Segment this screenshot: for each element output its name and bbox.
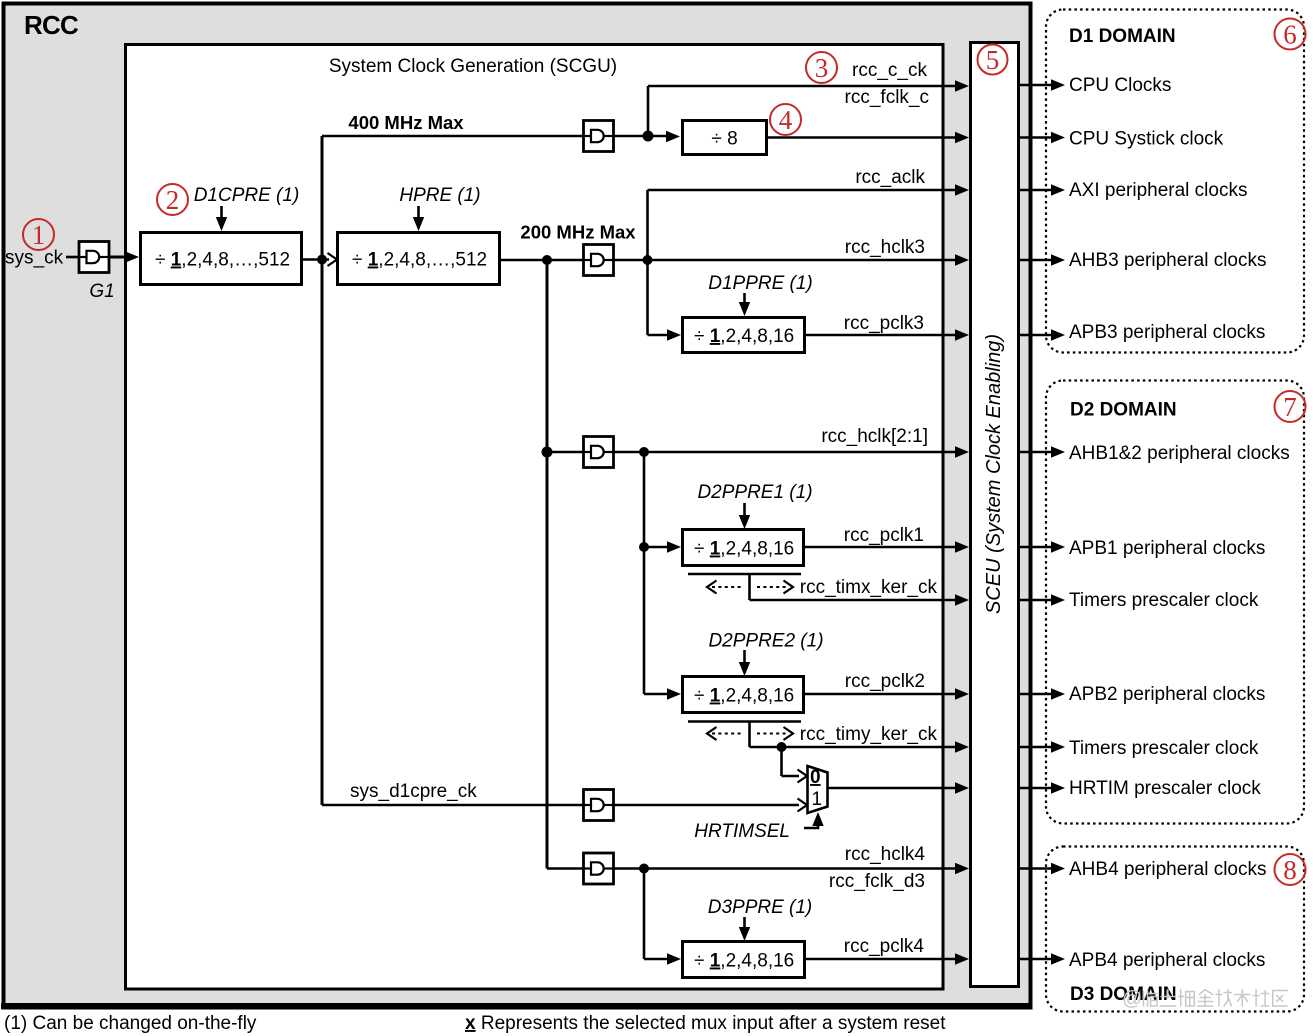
wire rcc_c_ck to SCEU (648, 80, 969, 91)
net rcc_pclk2 (845, 671, 925, 692)
net rcc_hclk[2:1] (821, 426, 928, 447)
callout 8 (1275, 854, 1306, 885)
clock gate on hclk21 (584, 437, 614, 468)
wire into D1PPRE (648, 329, 682, 340)
node on hclk3 at riser (643, 255, 653, 265)
wire drop to timy (748, 722, 751, 748)
wire rcc_pclk3 to SCEU (804, 329, 969, 340)
wire G1 to D1CPRE (109, 251, 139, 262)
SCEU output arrows (1019, 79, 1065, 964)
svg-text:rcc_hclk3: rcc_hclk3 (845, 237, 925, 258)
SCEU block U-SCEU (971, 43, 1019, 987)
D2PPRE2 control label (708, 631, 823, 652)
svg-text:Timers prescaler clock: Timers prescaler clock (1069, 590, 1259, 611)
wire drop to timx (748, 574, 751, 600)
mux HRTIMSEL (808, 766, 828, 813)
svg-text:rcc_pclk1: rcc_pclk1 (844, 525, 924, 546)
svg-text:CPU Clocks: CPU Clocks (1069, 75, 1171, 96)
divider HPRE (338, 233, 500, 285)
D1 domain box (1046, 10, 1304, 353)
clock gate G1 (79, 242, 109, 273)
D1CPRE control label (194, 185, 300, 206)
divider D2PPRE1 (683, 530, 804, 566)
net rcc_c_ck (852, 60, 927, 81)
node junction on 400MHz line (643, 131, 654, 142)
callout 5 (978, 45, 1008, 76)
svg-text:HRTIM prescaler clock: HRTIM prescaler clock (1069, 778, 1261, 799)
svg-text:sys_d1cpre_ck: sys_d1cpre_ck (350, 781, 477, 802)
wire HPRE output rcc_hclk3 (499, 254, 969, 265)
svg-text:rcc_fclk_c: rcc_fclk_c (845, 87, 929, 108)
svg-text:SCEU (System Clock Enabling): SCEU (System Clock Enabling) (983, 334, 1005, 614)
D2 domain items (1069, 443, 1290, 799)
wire sys_d1cpre_ck (322, 799, 807, 812)
net rcc_hclk3 (845, 237, 925, 258)
callout 1 (23, 219, 54, 250)
clock gate on hclk4 (584, 853, 614, 884)
wire arrow into div8 (666, 131, 680, 142)
svg-text:RCC: RCC (24, 10, 79, 40)
wire 400MHz line (322, 135, 668, 138)
net rcc_fclk_c (845, 87, 929, 108)
wire mux output to SCEU (828, 782, 970, 793)
D1PPRE control label (708, 273, 813, 294)
svg-text:÷ 1,2,4,8,16: ÷ 1,2,4,8,16 (694, 539, 794, 560)
svg-text:APB4 peripheral clocks: APB4 peripheral clocks (1069, 950, 1265, 971)
timer mul dashed arrows 2 (707, 727, 793, 740)
timer mul line 1 (688, 573, 801, 576)
D3 domain title (1070, 984, 1177, 1005)
svg-text:rcc_timy_ker_ck: rcc_timy_ker_ck (800, 724, 938, 745)
svg-text:D1 DOMAIN: D1 DOMAIN (1069, 26, 1176, 47)
net sys_d1cpre_ck (350, 781, 477, 802)
svg-text:APB3 peripheral clocks: APB3 peripheral clocks (1069, 322, 1265, 343)
wire D1CPRE to HPRE with node (301, 253, 337, 266)
wire riser to rcc_c_ck (647, 86, 650, 136)
divider D1CPRE (141, 233, 302, 285)
svg-text:D1PPRE (1): D1PPRE (1) (708, 273, 813, 294)
svg-text:÷ 1,2,4,8,16: ÷ 1,2,4,8,16 (694, 326, 794, 347)
svg-text:rcc_pclk3: rcc_pclk3 (844, 313, 924, 334)
D2PPRE2 control arrow (739, 650, 750, 676)
svg-text:rcc_c_ck: rcc_c_ck (852, 60, 927, 81)
divider D1PPRE (683, 318, 805, 353)
wire into D2PPRE2 (644, 688, 681, 699)
svg-text:÷ 1,2,4,8,…,512: ÷ 1,2,4,8,…,512 (155, 250, 290, 271)
svg-text:AHB4 peripheral clocks: AHB4 peripheral clocks (1069, 859, 1266, 880)
divider D3PPRE (683, 942, 805, 978)
node on hclk3 at trunk2 (542, 255, 552, 265)
net rcc_aclk (855, 167, 925, 188)
svg-text:AHB1&2 peripheral clocks: AHB1&2 peripheral clocks (1069, 443, 1290, 464)
node timy to mux (777, 742, 787, 752)
node hclk4 riser (639, 864, 649, 874)
wire rcc_pclk1 (803, 541, 969, 552)
svg-text:x Represents the selected mux: x Represents the selected mux input afte… (465, 1013, 946, 1034)
svg-text:400 MHz Max: 400 MHz Max (348, 112, 464, 133)
wire div8 to SCEU (767, 132, 969, 143)
svg-text:Timers prescaler clock: Timers prescaler clock (1069, 738, 1259, 759)
wire riser D2 (643, 452, 646, 694)
svg-text:7: 7 (1283, 392, 1297, 422)
wire rcc_timy_ker_ck (750, 741, 970, 752)
D2PPRE1 control label (697, 482, 812, 503)
D3PPRE control arrow (739, 917, 750, 941)
RCC label (24, 10, 79, 40)
wire rcc_pclk2 (803, 688, 969, 699)
wire rcc_aclk (648, 184, 970, 195)
svg-text:6: 6 (1283, 20, 1297, 50)
SCEU rotated label (983, 334, 1005, 614)
wire riser D3 (643, 869, 646, 960)
svg-text:1: 1 (32, 220, 46, 250)
svg-text:2: 2 (166, 185, 180, 215)
HPRE control label (399, 185, 480, 206)
footnote 1 (4, 1013, 257, 1034)
net rcc_pclk3 (844, 313, 924, 334)
svg-text:D1CPRE (1): D1CPRE (1) (194, 185, 300, 206)
D2 domain box (1046, 381, 1304, 824)
svg-text:1: 1 (812, 789, 823, 810)
wire rcc_hclk[2:1] (547, 446, 969, 457)
wire rcc_pclk4 (804, 953, 969, 964)
node D2PPRE1 input (639, 542, 649, 552)
wire sys_ck to G1 (66, 256, 79, 259)
svg-text:AXI peripheral clocks: AXI peripheral clocks (1069, 180, 1247, 201)
svg-text:÷ 1,2,4,8,16: ÷ 1,2,4,8,16 (694, 686, 794, 707)
svg-text:sys_ck: sys_ck (5, 248, 64, 269)
watermark (1122, 988, 1287, 1010)
wire riser aclk-pclk3 (646, 190, 649, 335)
divider D2PPRE2 (683, 677, 804, 713)
svg-text:D3PPRE (1): D3PPRE (1) (708, 897, 813, 918)
svg-text:APB1 peripheral clocks: APB1 peripheral clocks (1069, 538, 1265, 559)
svg-text:rcc_pclk2: rcc_pclk2 (845, 671, 925, 692)
svg-text:4: 4 (779, 105, 793, 135)
node trunk2 hclk21 (542, 447, 553, 458)
svg-text:CPU Systick clock: CPU Systick clock (1069, 129, 1224, 150)
svg-text:D2PPRE2 (1): D2PPRE2 (1) (708, 631, 823, 652)
footnote mux (465, 1013, 946, 1034)
svg-text:HPRE (1): HPRE (1) (399, 185, 480, 206)
svg-text:AHB3 peripheral clocks: AHB3 peripheral clocks (1069, 250, 1266, 271)
net rcc_pclk1 (844, 525, 924, 546)
wire into D3PPRE (644, 953, 681, 964)
D1 domain title (1069, 26, 1176, 47)
svg-text:APB2 peripheral clocks: APB2 peripheral clocks (1069, 684, 1265, 705)
wire rcc_timx_ker_ck (750, 594, 970, 605)
SCGU block outline (126, 45, 944, 990)
net rcc_timy_ker_ck (800, 724, 938, 745)
svg-text:rcc_timx_ker_ck: rcc_timx_ker_ck (800, 577, 938, 598)
svg-text:rcc_aclk: rcc_aclk (855, 167, 925, 188)
clock gate on sys_d1cpre_ck (584, 790, 614, 821)
callout 3 (806, 52, 837, 83)
svg-text:D2 DOMAIN: D2 DOMAIN (1070, 400, 1177, 421)
timer mul dashed arrows 1 (707, 581, 793, 594)
svg-text:D2PPRE1 (1): D2PPRE1 (1) (697, 482, 812, 503)
svg-text:÷ 1,2,4,8,16: ÷ 1,2,4,8,16 (694, 951, 794, 972)
RCC block outline (1, 4, 1032, 1008)
wire into D2PPRE1 (644, 541, 681, 552)
svg-text:@: @ (1122, 988, 1142, 1010)
divider div8 (683, 121, 767, 155)
D1CPRE control arrow (216, 206, 227, 231)
callout 7 (1275, 391, 1306, 422)
net rcc_pclk4 (844, 936, 925, 957)
D3 domain box (1046, 847, 1304, 1012)
net rcc_fclk_d3 (829, 871, 925, 892)
node sys_ck input label (5, 248, 64, 269)
G1 label (89, 281, 114, 302)
svg-text:rcc_pclk4: rcc_pclk4 (844, 936, 925, 957)
svg-text:8: 8 (1283, 855, 1297, 885)
wire rcc_hclk4 (547, 863, 969, 874)
svg-text:200 MHz Max: 200 MHz Max (520, 222, 636, 243)
svg-text:rcc_hclk4: rcc_hclk4 (845, 844, 926, 865)
mux select wire (804, 812, 824, 828)
clock gate on 400MHz line (584, 121, 614, 152)
svg-text:(1) Can be changed on-the-fly: (1) Can be changed on-the-fly (4, 1013, 257, 1034)
D3PPRE control label (708, 897, 813, 918)
timer mul line 2 (688, 720, 801, 723)
trunk wire 2 from hclk3 down to hclk4 (546, 260, 549, 869)
clock gate on hclk3 (584, 245, 614, 276)
D2PPRE1 control arrow (739, 503, 750, 529)
svg-text:rcc_hclk[2:1]: rcc_hclk[2:1] (821, 426, 928, 447)
label 400 MHz Max (348, 112, 464, 133)
SCGU title (329, 56, 617, 77)
trunk wire from node at 322 (321, 136, 324, 805)
mux select HRTIMSEL label (694, 821, 790, 842)
callout 6 (1275, 19, 1306, 50)
svg-text:HRTIMSEL: HRTIMSEL (694, 821, 790, 842)
svg-text:0: 0 (810, 767, 821, 788)
callout 4 (770, 104, 801, 135)
D1PPRE control arrow (739, 293, 750, 316)
svg-text:rcc_fclk_d3: rcc_fclk_d3 (829, 871, 925, 892)
callout 2 (157, 184, 188, 215)
svg-text:÷ 1,2,4,8,…,512: ÷ 1,2,4,8,…,512 (352, 250, 487, 271)
node hclk21 riser (639, 447, 649, 457)
D3 domain items (1069, 859, 1266, 971)
net rcc_timx_ker_ck (800, 577, 938, 598)
wire timy to mux input 0 (782, 747, 808, 783)
svg-text:÷ 8: ÷ 8 (711, 129, 737, 150)
svg-text:3: 3 (815, 53, 829, 83)
HPRE control arrow (413, 206, 424, 231)
svg-text:System Clock Generation (SCGU): System Clock Generation (SCGU) (329, 56, 617, 77)
svg-text:G1: G1 (89, 281, 114, 302)
svg-text:5: 5 (986, 45, 1000, 75)
D1 domain items (1069, 75, 1266, 343)
D2 domain title (1070, 400, 1177, 421)
label 200 MHz Max (520, 222, 636, 243)
net rcc_hclk4 (845, 844, 926, 865)
